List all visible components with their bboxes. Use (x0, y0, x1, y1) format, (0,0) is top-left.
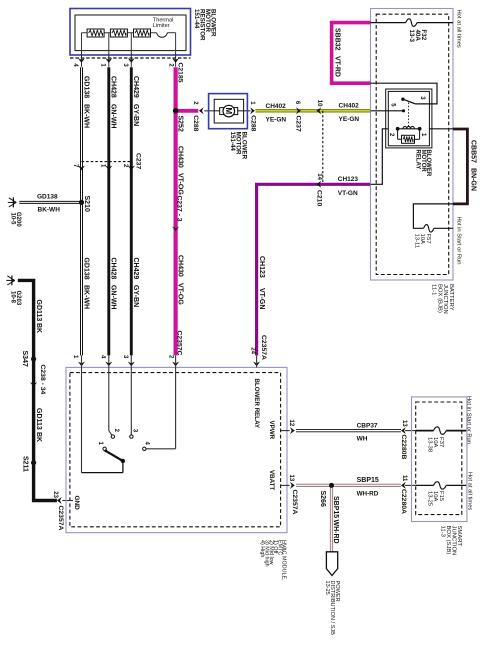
VPWR pin 12 arrow (281, 427, 295, 434)
label GD113 lower (35, 408, 42, 430)
HVAC module dashed box (70, 373, 281, 527)
svg-text:C238 - 34: C238 - 34 (39, 365, 46, 395)
svg-text:VT-GN: VT-GN (338, 190, 358, 197)
label smart junction box (439, 526, 462, 556)
wire stub into HVAC gnd (62, 500, 73, 502)
switch lead 2 (109, 367, 112, 435)
label GD138 lower (82, 258, 89, 280)
connector label C210 (316, 190, 323, 206)
connector label C2280A (400, 489, 407, 514)
svg-text:13-25: 13-25 (426, 491, 432, 507)
label BK-WH horizontal (38, 206, 61, 213)
svg-text:BK: BK (35, 432, 42, 442)
svg-text:C2280B: C2280B (400, 435, 407, 460)
resistor internal bus wire (82, 33, 176, 67)
label WH-RD (357, 491, 379, 498)
svg-text:GD138: GD138 (82, 76, 89, 98)
svg-text:2: 2 (192, 101, 198, 105)
label S252 (177, 116, 184, 132)
svg-text:YE-GN: YE-GN (266, 117, 287, 124)
label BK lower (35, 432, 42, 442)
ground G203 (6, 275, 14, 285)
switch lead 1 (82, 367, 123, 472)
pin 1 label C288 (249, 101, 255, 105)
svg-text:4: 4 (144, 442, 150, 446)
wire branch to blower motor (176, 109, 199, 113)
connector C288 pin 1 arrow (250, 107, 255, 114)
svg-text:S266: S266 (319, 491, 326, 507)
svg-text:4: 4 (72, 63, 78, 67)
svg-text:1: 1 (249, 101, 255, 105)
fuse F57 net (413, 204, 453, 228)
relay actuation dotted line (408, 103, 410, 127)
label Thermal Limiter (153, 17, 174, 29)
label CH402 second (339, 103, 360, 110)
svg-text:13-11: 13-11 (413, 234, 419, 249)
svg-text:1: 1 (100, 63, 106, 67)
fuse F57 (424, 225, 434, 233)
label blower motor resistor name (193, 9, 217, 41)
svg-text:1: 1 (97, 442, 103, 446)
svg-text:GD138: GD138 (82, 258, 89, 280)
label BK-WH lower (82, 285, 89, 309)
connector label C238 - 34 (39, 365, 46, 395)
svg-text:GY-BN: GY-BN (132, 285, 139, 307)
relay coil resistor links (398, 129, 420, 140)
label Hot at all times SJB (466, 472, 472, 510)
connector label C2357A top (260, 335, 267, 360)
label S266 (319, 491, 326, 507)
connector C2357A pin 23 arrow (57, 497, 62, 504)
relay coil (403, 126, 414, 128)
relay coil bus (396, 127, 422, 131)
svg-text:23: 23 (52, 491, 58, 498)
svg-text:GND: GND (73, 496, 80, 511)
blower motor inner box (214, 99, 243, 123)
connector label C237 left (134, 153, 141, 169)
relay pin 5 lead (371, 109, 406, 112)
svg-text:11: 11 (401, 475, 407, 482)
label GND (73, 496, 80, 511)
svg-text:WH-RD: WH-RD (357, 491, 379, 498)
label S211 (22, 456, 29, 472)
label CH430 upper (177, 146, 184, 168)
label HVAC module block (259, 540, 287, 581)
pin 10 label (316, 100, 322, 107)
svg-text:VT-GN: VT-GN (258, 288, 265, 309)
pin 12 label (288, 420, 294, 427)
svg-text:151-44: 151-44 (193, 9, 200, 29)
svg-text:11-1: 11-1 (431, 284, 437, 295)
svg-text:Hot at all times: Hot at all times (466, 472, 472, 510)
label S210 (83, 196, 90, 212)
svg-text:11-3: 11-3 (439, 526, 445, 538)
blower motor relay inner box (388, 91, 429, 145)
smart junction box outer (412, 397, 467, 522)
connector label C2185 (176, 63, 183, 83)
connector C2185 dashed face (70, 57, 191, 59)
VBATT pin 13 arrow (281, 482, 295, 489)
blower motor outer box (209, 94, 248, 129)
svg-text:Limiter: Limiter (153, 23, 170, 29)
label fuse F32 (408, 30, 427, 43)
CH123 entry arrow (253, 355, 260, 367)
blower motor resistor U1 outer box (70, 9, 191, 56)
svg-text:14: 14 (316, 173, 322, 180)
svg-text:CBP37: CBP37 (357, 422, 378, 429)
connector label C2280B (400, 435, 407, 460)
svg-text:GY-BN: GY-BN (132, 104, 139, 126)
label CH428 upper (109, 76, 116, 98)
label YE-GN second (339, 116, 360, 123)
connector C210 pin 10 arrow (316, 107, 321, 114)
switch contact 4 (143, 447, 146, 450)
svg-text:M: M (224, 108, 233, 115)
label power distribution (324, 581, 340, 636)
label SBP15 (357, 477, 379, 484)
blower motor relay outer box (386, 89, 432, 148)
svg-text:GD138: GD138 (37, 193, 58, 200)
svg-text:GN-WH: GN-WH (109, 285, 116, 310)
svg-text:Hot in Start or Run: Hot in Start or Run (466, 396, 472, 444)
svg-text:4: 4 (100, 355, 106, 359)
svg-text:CH123: CH123 (338, 176, 359, 183)
label blower motor relay (415, 150, 432, 177)
connector C210 dashed face (322, 111, 324, 185)
pin 2 label (168, 63, 174, 67)
label SBB32 (334, 28, 341, 51)
svg-text:5: 5 (390, 103, 396, 107)
fuse F15 (434, 482, 447, 490)
label fuse F37 (426, 437, 444, 453)
wire SBP15 WH-RD (296, 484, 401, 487)
fuse F15 line (416, 484, 467, 486)
connector C210 pin 14 arrow (316, 181, 321, 188)
connector label C288 left (192, 115, 199, 131)
wire CBP37 WH (296, 429, 401, 432)
label BK-WH upper (82, 104, 89, 128)
splice S211 (31, 460, 36, 465)
svg-text:SBP15: SBP15 (357, 477, 379, 484)
label blower motor name (229, 132, 248, 160)
battery junction box outer (371, 9, 454, 281)
svg-text:BLOWER RELAY: BLOWER RELAY (253, 379, 260, 429)
fuse F32 (406, 19, 417, 27)
svg-text:CH428: CH428 (109, 258, 116, 280)
thermal limiter symbol (157, 33, 168, 38)
label BN-GN (470, 168, 477, 191)
svg-text:BN-GN: BN-GN (470, 168, 477, 191)
svg-text:BK-WH: BK-WH (82, 104, 89, 128)
label SBP15 vertical (332, 496, 339, 518)
label CH123 horizontal (338, 176, 359, 183)
switch position 4 label (144, 442, 150, 446)
connector C2280A pin 11 arrow (401, 482, 416, 489)
label CBP37 (357, 422, 378, 429)
svg-text:3: 3 (122, 355, 128, 359)
svg-text:4) High: 4) High (259, 540, 265, 557)
HVAC pin 2 label (168, 355, 174, 359)
svg-text:10-8: 10-8 (10, 291, 16, 304)
svg-text:CBB57: CBB57 (470, 140, 477, 163)
wire GD138 BK-WH to ground (19, 201, 81, 204)
svg-text:1: 1 (420, 133, 426, 137)
wire GD138 BK-WH vertical (80, 67, 83, 355)
connector C237 pin arrows (78, 166, 135, 171)
label GY-BN lower (132, 285, 139, 307)
svg-text:C288: C288 (250, 115, 257, 131)
resistor element R1 (87, 29, 104, 37)
resistor element R2 (110, 29, 127, 37)
resistor element R3 (134, 29, 151, 37)
pin 1 label (100, 63, 106, 67)
relay switch arm (401, 98, 415, 104)
connector C237 pin 3 arrow (172, 227, 179, 232)
svg-text:SBB32: SBB32 (334, 28, 341, 51)
wire CH402 YE-GN (256, 109, 371, 112)
label CH428 lower (109, 258, 116, 280)
svg-text:10: 10 (316, 100, 322, 107)
connector C2185 pin arrows (78, 58, 179, 63)
svg-text:Hot at all times: Hot at all times (455, 10, 461, 48)
blower motor resistor inner box (75, 15, 186, 51)
label CH429 lower (132, 258, 139, 280)
pin 7 label (72, 164, 78, 168)
connector label C237 right (295, 116, 302, 132)
svg-text:6: 6 (294, 101, 300, 105)
pin 6 label (294, 101, 300, 105)
label VPWR (268, 421, 275, 440)
HVAC module outer box (66, 367, 287, 532)
HVAC pin 3 label (122, 355, 128, 359)
svg-text:2: 2 (168, 355, 174, 359)
switch position 2 label (113, 429, 119, 433)
HVAC pin 4 label (100, 355, 106, 359)
label WH (357, 436, 368, 443)
switch contact 1 (103, 447, 106, 450)
svg-text:1: 1 (72, 355, 78, 359)
label Hot at all times BJB (455, 10, 461, 48)
svg-text:VPWR: VPWR (268, 421, 275, 440)
label fuse F57 (413, 234, 431, 249)
label CBB57 (470, 140, 477, 163)
pin 1 label C237 (100, 164, 106, 168)
connector C238 arrow (30, 382, 37, 387)
connector label C237 - 3 (176, 196, 183, 222)
svg-text:10-5: 10-5 (10, 213, 16, 226)
svg-text:VT-OG: VT-OG (177, 173, 184, 195)
connector C288 pin 2 arrow (199, 107, 204, 114)
switch lead 4 (146, 367, 176, 448)
svg-text:3: 3 (419, 96, 425, 100)
pin 11 label (401, 475, 407, 482)
svg-text:13-25: 13-25 (324, 581, 330, 595)
svg-text:C237: C237 (134, 153, 141, 169)
pin 2 label C237 (122, 164, 128, 168)
wire GD113 BK (18, 280, 57, 500)
switch contact 2 (111, 435, 114, 438)
pin 3 label (122, 63, 128, 67)
svg-text:C237 - 3: C237 - 3 (176, 196, 183, 222)
svg-text:2: 2 (113, 429, 119, 433)
switch lead 3 (130, 367, 132, 434)
splice S347 (31, 356, 36, 361)
switch position 3 label (132, 429, 138, 433)
relay pin 3 net (371, 83, 438, 104)
svg-text:S347: S347 (21, 351, 28, 367)
wire CH429 GY-BN vertical (130, 67, 133, 355)
svg-text:WH-RD: WH-RD (332, 520, 339, 544)
connector label C2357A ground (57, 506, 64, 531)
wire CH428 GN-WH vertical (107, 67, 110, 355)
svg-text:SBP15: SBP15 (332, 496, 339, 518)
blower motor M symbol (223, 105, 235, 117)
pin 4 label (72, 63, 78, 67)
svg-text:S210: S210 (83, 196, 90, 212)
blower motor lead (204, 110, 250, 112)
pin 2 label C288 (192, 101, 198, 105)
pin 14 label (316, 173, 322, 180)
label CH429 upper (132, 76, 139, 98)
ground G200 (8, 197, 16, 207)
svg-text:C288: C288 (192, 115, 199, 131)
HVAC pin stubs top (82, 355, 176, 367)
svg-text:C2357A: C2357A (260, 335, 267, 360)
label GN-WH lower (109, 285, 116, 310)
svg-text:CH429: CH429 (132, 258, 139, 280)
relay pin 5 label (390, 103, 396, 107)
wire CH123 VT-GN (257, 184, 371, 355)
label CH430 lower (177, 255, 184, 277)
svg-text:CH428: CH428 (109, 76, 116, 98)
label WH-RD vertical (332, 520, 339, 544)
label battery junction box (431, 284, 454, 314)
connector C237 dashed face (82, 161, 132, 163)
relay coil resistor (402, 135, 415, 143)
svg-text:CH123: CH123 (258, 256, 265, 278)
label GN-WH upper (109, 104, 116, 129)
svg-text:3: 3 (132, 429, 138, 433)
blower motor brushes (220, 108, 238, 115)
svg-text:2: 2 (122, 164, 128, 168)
svg-text:Hot in Start or Run: Hot in Start or Run (455, 217, 461, 265)
HVAC pin 24 label (249, 347, 255, 354)
svg-text:13: 13 (401, 420, 407, 427)
svg-text:24: 24 (249, 347, 255, 354)
connector C237 pin 6 arrow (296, 107, 301, 114)
label BK upper (35, 323, 42, 333)
svg-text:151-44: 151-44 (229, 132, 236, 152)
HVAC pin arrows top (78, 362, 179, 367)
connector label C2357A VBATT (291, 490, 298, 515)
svg-text:VT-OG: VT-OG (177, 283, 184, 305)
label fuse F15 (426, 491, 444, 507)
label G200 (10, 212, 21, 227)
svg-text:CH402: CH402 (339, 103, 360, 110)
wire CH430 VT-OG vertical (174, 67, 178, 355)
label Hot in Start or Run SJB (466, 396, 472, 444)
svg-text:S252: S252 (177, 116, 184, 132)
label VBATT (268, 470, 275, 490)
wire SBB32 VT-RD (332, 23, 371, 84)
relay pin 2 label (388, 133, 394, 137)
label CH123 vertical (258, 256, 265, 278)
label CH402 first (266, 103, 287, 110)
label VT-OG lower (177, 283, 184, 305)
svg-text:RELAY: RELAY (415, 150, 421, 170)
wire SBP15 vertical (330, 485, 333, 551)
splice S210 (79, 200, 84, 205)
label BLOWER RELAY (253, 379, 260, 429)
HVAC pin 1 label (72, 355, 78, 359)
svg-text:C2357A: C2357A (291, 490, 298, 515)
label GD113 upper (35, 300, 42, 322)
svg-text:1: 1 (100, 164, 106, 168)
svg-text:VT-RD: VT-RD (334, 56, 341, 77)
svg-text:CH430: CH430 (177, 146, 184, 168)
svg-text:GN-WH: GN-WH (109, 104, 116, 129)
fuse F37 line (416, 430, 467, 432)
svg-text:13-38: 13-38 (426, 437, 432, 453)
pin 13 label VBATT (288, 475, 294, 482)
smart junction box dashed (416, 402, 462, 515)
svg-text:GD113: GD113 (35, 408, 42, 430)
svg-text:BK-WH: BK-WH (38, 206, 61, 213)
wire CBB57 BN-GN (453, 129, 467, 204)
connector C2280B pin 13 arrow (401, 427, 416, 434)
pin 13 label C2280B (401, 420, 407, 427)
label GD138 horizontal (37, 193, 58, 200)
splice S266 (329, 483, 334, 488)
svg-text:C210: C210 (316, 190, 323, 206)
svg-text:CH402: CH402 (266, 103, 287, 110)
svg-text:VBATT: VBATT (268, 470, 275, 490)
relay pin 1 label (420, 133, 426, 137)
label S347 (21, 351, 28, 367)
switch contact 3 (130, 435, 133, 438)
pin 23 label (52, 491, 58, 498)
svg-text:C2357A: C2357A (57, 506, 64, 531)
label VT-GN vertical (258, 288, 265, 309)
label G203 (10, 291, 21, 306)
svg-text:3: 3 (122, 63, 128, 67)
label GY-BN upper (132, 104, 139, 126)
svg-text:13: 13 (288, 475, 294, 482)
fuse F32 bus line (371, 22, 454, 24)
svg-text:BK-WH: BK-WH (82, 285, 89, 309)
svg-text:C2280A: C2280A (400, 489, 407, 514)
svg-text:CH429: CH429 (132, 76, 139, 98)
splice S252 (173, 108, 179, 114)
svg-text:YE-GN: YE-GN (339, 116, 360, 123)
switch position 1 label (97, 442, 103, 446)
svg-text:C2357C: C2357C (176, 331, 183, 356)
relay pin 2 lead (371, 129, 389, 185)
label Hot in Start or Run BJB (455, 217, 461, 265)
svg-text:2: 2 (168, 63, 174, 67)
svg-text:7: 7 (72, 164, 78, 168)
relay pin 1 lead (429, 128, 453, 130)
label GD138 upper (82, 76, 89, 98)
svg-text:CH430: CH430 (177, 255, 184, 277)
svg-text:GD113: GD113 (35, 300, 42, 322)
off-page arrow to power distribution (326, 552, 337, 576)
svg-text:12: 12 (288, 420, 294, 427)
svg-text:S211: S211 (22, 456, 29, 472)
label VT-RD (334, 56, 341, 77)
label YE-GN first (266, 117, 287, 124)
connector label C2357C (176, 331, 183, 356)
